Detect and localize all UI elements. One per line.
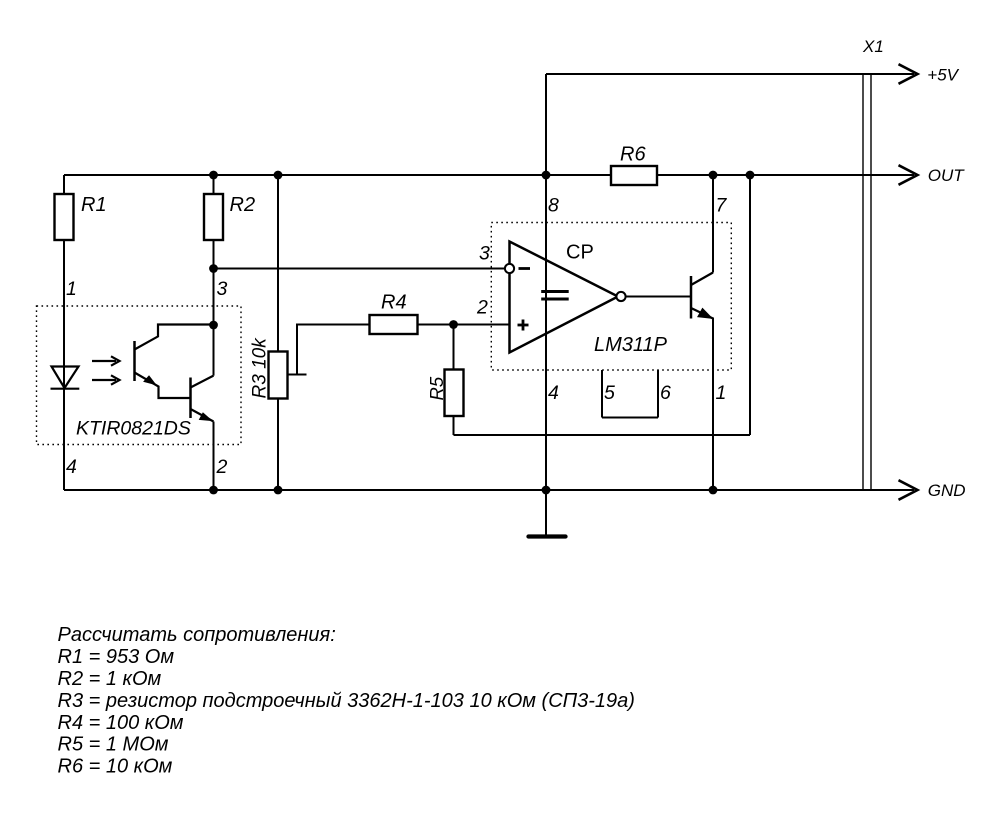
svg-text:1: 1 [66,278,77,300]
junction dots [209,171,754,495]
svg-text:+5V: +5V [927,66,959,85]
op-amp minus sign [519,267,531,270]
wire R5 bottom feedback horizontal [454,434,751,436]
svg-text:R3 10k: R3 10k [250,337,271,399]
svg-text:R1 = 953 Ом: R1 = 953 Ом [58,646,175,668]
wire wiper to R4 [297,325,370,375]
light arrow 2 [92,375,120,384]
svg-text:8: 8 [548,195,559,217]
node R2 bottom / minus input [209,264,218,273]
connector X1 arrow OUT [899,165,918,185]
wire pin8/pin4 vertical through op-amp [545,175,547,490]
Q1 emitter arrowhead [144,376,156,385]
op-amp output circle [616,292,625,301]
wire R4 to plus input [418,324,510,326]
svg-text:5: 5 [604,382,615,404]
svg-text:3: 3 [479,243,490,265]
op-amp U1 triangle [510,242,619,353]
node R3 bottom GND [274,486,283,495]
transistor Q3 (output stage) [691,273,713,319]
wire op-amp output to Q3 base [626,296,692,298]
wire Q2 emitter to GND [213,422,215,491]
svg-text:Рассчитать сопротивления:: Рассчитать сопротивления: [58,624,336,646]
optocoupler U2 dotted box [37,306,242,445]
wire GND rail [64,489,914,491]
svg-text:OUT: OUT [928,166,966,185]
wire R3 vertical [277,175,279,490]
svg-text:R2 = 1 кОм: R2 = 1 кОм [58,668,162,690]
svg-text:R6: R6 [620,144,646,166]
wire ground stub [545,490,547,535]
connector X1 arrow +5V [899,64,918,84]
node pin2 GND [209,486,218,495]
svg-text:6: 6 [660,382,671,404]
svg-text:CP: CP [566,242,594,264]
wire connector line A [862,74,864,490]
svg-text:X1: X1 [862,37,884,56]
wire R2 vertical (pin3 branch) [213,175,215,376]
op-amp equals sign [541,292,569,300]
svg-text:1: 1 [716,382,727,404]
node R3 top [274,171,283,180]
op-amp inverting input circle [505,264,514,273]
notes text block [58,624,635,778]
wire +5V vertical drop to rail [545,74,547,175]
resistor R1 [55,194,74,240]
ground [529,534,566,538]
Q2 emitter arrowhead [200,413,212,421]
svg-text:R3 = резистор подстроечный 336: R3 = резистор подстроечный 3362Н-1-103 1… [58,690,635,712]
svg-text:4: 4 [548,382,559,404]
node pin1 GND [709,486,718,495]
node pin4 GND [542,486,551,495]
wire pin6 [657,370,659,418]
svg-text:4: 4 [66,456,77,478]
phototransistor Q2 (darlington) [191,376,214,422]
resistor R2 [204,194,223,240]
wire pin5-pin6 strap [602,417,658,419]
svg-text:R5 = 1 МОм: R5 = 1 МОм [58,734,169,756]
svg-text:7: 7 [716,195,728,217]
op-amp plus sign [518,320,529,331]
phototransistor Q1 [135,325,214,399]
svg-text:R6 = 10 кОм: R6 = 10 кОм [58,756,173,778]
svg-text:2: 2 [216,456,228,478]
svg-text:GND: GND [928,481,966,500]
node R4/R5 plus input [449,320,458,329]
connector X1 arrow GND [899,480,918,500]
wire pin7 vertical [712,175,714,273]
svg-text:R4: R4 [381,292,407,314]
light arrow 1 [92,356,120,365]
wire feedback vertical to OUT [749,175,751,435]
resistor R4 [370,315,418,334]
svg-text:LM311P: LM311P [594,334,668,356]
wire main +5V/OUT rail [64,174,914,176]
wire pin1 vertical [712,318,714,491]
node pin7/OUT [709,171,718,180]
resistor R3 (trimmer body) [269,352,288,399]
node R2 top [209,171,218,180]
resistor R6 [611,166,657,185]
resistor R5 [445,370,464,417]
pin number labels [66,195,728,479]
wire pin5 [601,370,603,418]
wire R5 vertical [453,325,455,436]
svg-text:KTIR0821DS: KTIR0821DS [76,418,191,440]
wire connector line B [870,74,872,490]
op-amp U1 dotted box [491,223,731,371]
node feedback/OUT [746,171,755,180]
wire minus input line [214,268,505,270]
svg-text:R5: R5 [426,376,447,400]
node pin8/+5V [542,171,551,180]
LED D1 of optocoupler [51,367,80,389]
svg-text:R1: R1 [81,194,107,216]
svg-text:R4 = 100 кОм: R4 = 100 кОм [58,712,184,734]
wire R1 left vertical (pin1/pin4 branch) [63,175,65,490]
wire +5V rail [546,73,914,75]
Q3 emitter arrowhead [698,309,712,319]
svg-text:2: 2 [476,297,488,319]
svg-text:3: 3 [217,278,228,300]
wire R3 wiper tap [288,374,307,376]
svg-text:R2: R2 [230,194,256,216]
node pin3 collector [209,321,218,330]
